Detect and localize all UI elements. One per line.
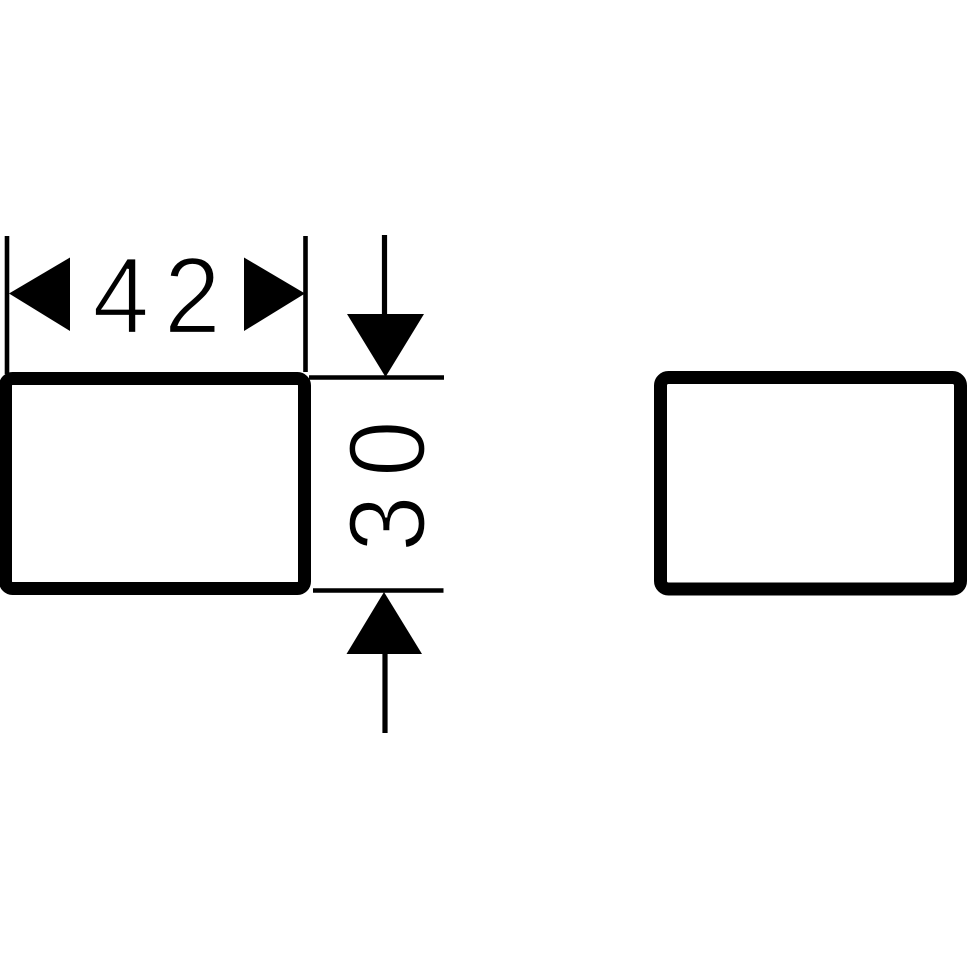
arrowhead down xyxy=(347,314,424,377)
svg-text:3: 3 xyxy=(328,495,448,552)
svg-text:4: 4 xyxy=(93,236,150,356)
right rectangle (side view) xyxy=(661,378,961,590)
arrowhead right (points right) xyxy=(244,258,305,332)
arrow stem bottom (vertical) xyxy=(382,654,387,733)
extension line left (vertical) xyxy=(5,236,10,374)
arrow stem top (vertical) xyxy=(382,235,387,316)
svg-text:0: 0 xyxy=(328,420,448,477)
extension line top (horizontal) xyxy=(309,375,444,380)
extension line right (vertical) xyxy=(303,236,308,372)
extension line bottom (horizontal) xyxy=(313,588,444,593)
left rectangle (front view, 42 x 30) xyxy=(6,379,305,589)
svg-text:2: 2 xyxy=(164,236,221,356)
arrowhead up xyxy=(347,592,423,654)
arrowhead left (points left) xyxy=(9,258,70,332)
